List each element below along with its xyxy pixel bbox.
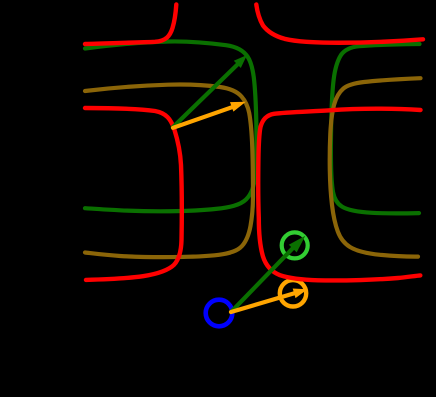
red level curve, top-right branch [256, 5, 423, 43]
dark goldenrod level curve, right C [330, 78, 421, 256]
dark goldenrod level curve, left oval [85, 85, 253, 258]
green gradient arrow from point on red curve (shaft) [173, 63, 240, 128]
red level curve, top-left branch [85, 5, 176, 45]
lime green circle marker [282, 232, 308, 258]
orange arrow from point on red curve (shaft) [173, 107, 234, 128]
green level curve, right C (opens right) [331, 44, 420, 213]
green level curve, left oval (clipped at left edge) [85, 41, 256, 211]
orange arrow head [230, 102, 246, 112]
red level curve, left C (opens left) [85, 108, 182, 280]
red level curve, right C descending into bottom line [258, 109, 420, 281]
orange arrow head inside orange circle [293, 289, 308, 299]
orange arrow from blue circle to orange circle (shaft) [231, 293, 297, 312]
green arrow head inside lime circle [289, 236, 306, 253]
green gradient arrow head [234, 55, 247, 68]
orange circle marker [280, 280, 306, 306]
green arrow from blue circle to lime circle (shaft) [231, 248, 293, 312]
blue circle marker [206, 300, 233, 327]
